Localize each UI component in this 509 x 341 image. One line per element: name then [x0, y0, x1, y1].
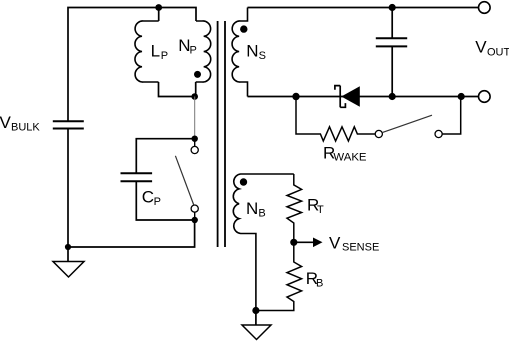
svg-text:N: N — [246, 42, 258, 61]
switch S_P terminal bottom — [191, 205, 198, 212]
ground (bias) — [242, 325, 271, 340]
diode D1 (zener) — [335, 86, 346, 108]
node: C_P top — [192, 136, 198, 142]
svg-text:SENSE: SENSE — [342, 242, 379, 254]
node: bottom rail R_WAKE junction — [292, 93, 299, 100]
polarity dot N_B — [240, 178, 247, 185]
wire: secondary bottom rail — [248, 96, 479, 98]
node: bias ground junction — [252, 307, 259, 314]
svg-text:V: V — [329, 234, 341, 253]
node: ground junction — [65, 244, 71, 250]
winding N_S — [232, 8, 247, 97]
polarity dot N_P — [194, 71, 201, 78]
svg-text:N: N — [246, 199, 258, 218]
wire: primary bottom rail — [68, 220, 195, 247]
terminal V_OUT- — [479, 91, 491, 103]
wire: primary top rail — [68, 8, 196, 122]
wire: grey link from N_P junction down to C_P tank — [194, 97, 196, 139]
wire: ground stem — [255, 311, 257, 326]
polarity dot N_S — [240, 25, 247, 32]
svg-text:T: T — [317, 204, 324, 216]
terminal V_OUT+ — [479, 2, 491, 14]
switch S_P blade — [175, 156, 193, 205]
wire: V_BULK cap bottom to ground node — [67, 129, 69, 262]
svg-text:B: B — [316, 278, 323, 290]
node: N_P bottom junction — [191, 93, 198, 100]
svg-text:L: L — [151, 42, 160, 61]
resistor R_B — [256, 242, 302, 310]
resistor R_WAKE — [296, 97, 461, 142]
node: bottom rail cap junction — [389, 93, 396, 100]
inductor L_P — [135, 21, 159, 82]
svg-text:P: P — [154, 196, 161, 208]
wire: N_P bottom lead — [195, 82, 197, 97]
switch S_P terminal top — [191, 146, 198, 153]
switch S_W terminal right — [435, 130, 442, 137]
arrow V_SENSE — [294, 241, 314, 243]
node: top rail cap junction — [389, 4, 396, 11]
capacitor C_P tank wiring — [136, 139, 194, 220]
svg-text:C: C — [142, 187, 154, 206]
svg-text:WAKE: WAKE — [333, 152, 367, 164]
svg-text:P: P — [190, 45, 197, 57]
wire: L_P bottom lead to N_P junction — [159, 82, 195, 97]
svg-text:V: V — [475, 37, 487, 56]
resistor R_T — [287, 174, 302, 242]
svg-text:V: V — [0, 113, 12, 132]
node: bottom rail switch junction — [458, 93, 465, 100]
svg-text:P: P — [161, 50, 168, 62]
svg-text:S: S — [259, 50, 266, 62]
node: top rail junction — [155, 4, 162, 11]
wire: stub dot to switch terminal — [194, 139, 196, 147]
wire: secondary top rail — [248, 7, 479, 9]
wire: L_P top stub from rail — [158, 8, 160, 22]
svg-text:OUT: OUT — [487, 46, 509, 58]
node V_SENSE — [290, 239, 297, 246]
svg-text:BULK: BULK — [11, 122, 40, 134]
winding N_B — [233, 174, 294, 311]
switch S_W terminal left — [375, 130, 382, 137]
capacitor C_P plates — [121, 173, 153, 181]
capacitor V_BULK plates — [53, 121, 84, 128]
capacitor C_OUT — [391, 8, 393, 39]
ground (left) — [53, 262, 84, 278]
transformer core — [218, 21, 225, 247]
switch S_W blade — [382, 115, 432, 132]
winding N_P — [196, 21, 211, 82]
node: C_P bottom — [192, 217, 198, 223]
svg-text:B: B — [258, 207, 265, 219]
